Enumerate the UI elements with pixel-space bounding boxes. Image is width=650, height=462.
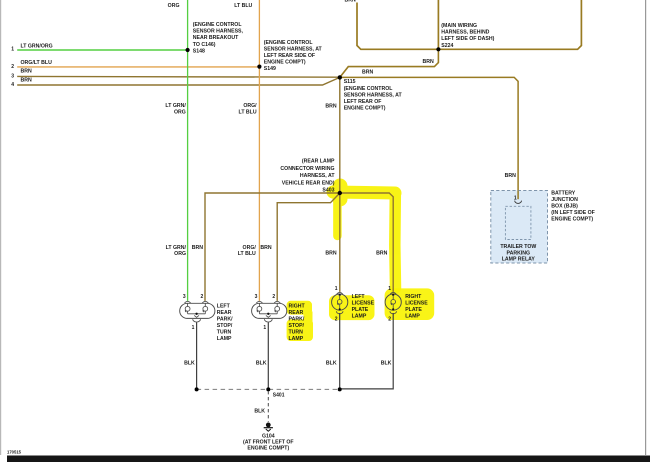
svg-text:VEHICLE REAR END): VEHICLE REAR END) bbox=[282, 180, 335, 186]
node S401 bbox=[266, 387, 270, 391]
svg-text:ORG/LT BLU: ORG/LT BLU bbox=[21, 60, 53, 66]
label LT GRN/ORG lower bbox=[166, 245, 187, 257]
left rear park stop turn lamp bulb element B bbox=[203, 306, 208, 313]
splice S115 node bbox=[338, 75, 342, 79]
svg-text:LAMP RELAY: LAMP RELAY bbox=[502, 257, 536, 263]
text trailer tow parking lamp relay bbox=[500, 244, 536, 262]
splice S148 node bbox=[186, 48, 190, 52]
left rear park stop turn lamp BLK ground wire bbox=[196, 322, 198, 389]
svg-text:2: 2 bbox=[11, 64, 14, 70]
highlighter blob over left license plate lamp bbox=[329, 295, 375, 320]
svg-text:LEFT REAR OF: LEFT REAR OF bbox=[344, 99, 382, 105]
splice S149 node bbox=[257, 65, 261, 69]
right rear park stop turn lamp BLK ground wire bbox=[267, 322, 269, 389]
left license plate lamp pin 2 connector arc bbox=[336, 311, 343, 314]
svg-text:(IN LEFT SIDE OF: (IN LEFT SIDE OF bbox=[551, 210, 595, 216]
svg-text:TURN: TURN bbox=[217, 329, 232, 335]
svg-text:ORG: ORG bbox=[168, 3, 180, 9]
left license plate lamp pin 1 connector bbox=[337, 292, 343, 294]
svg-text:LT BLU: LT BLU bbox=[239, 110, 257, 116]
svg-text:S148: S148 bbox=[193, 48, 205, 54]
svg-text:PARK/: PARK/ bbox=[289, 316, 305, 322]
svg-text:REAR: REAR bbox=[217, 310, 232, 316]
svg-text:LICENSE: LICENSE bbox=[352, 301, 375, 307]
svg-text:LEFT: LEFT bbox=[352, 294, 366, 300]
svg-text:LT GRN/: LT GRN/ bbox=[159, 0, 180, 1]
svg-text:BRN: BRN bbox=[192, 245, 203, 251]
svg-text:(ENGINE CONTROL: (ENGINE CONTROL bbox=[193, 22, 243, 28]
svg-text:170515: 170515 bbox=[7, 449, 22, 454]
svg-text:LAMP: LAMP bbox=[352, 314, 367, 320]
svg-text:(ENGINE CONTROL: (ENGINE CONTROL bbox=[264, 40, 314, 46]
right license plate lamp bulb element bbox=[391, 295, 396, 310]
svg-text:BRN: BRN bbox=[21, 78, 32, 84]
right license plate lamp bottom node bbox=[392, 308, 394, 310]
svg-text:BLK: BLK bbox=[326, 360, 337, 366]
svg-text:3: 3 bbox=[11, 74, 14, 80]
text battery junction box bbox=[551, 190, 595, 222]
text G104 bbox=[243, 434, 294, 452]
svg-text:2: 2 bbox=[201, 294, 204, 300]
left license plate lamp bulb element bbox=[337, 295, 342, 310]
svg-text:S115: S115 bbox=[344, 79, 356, 85]
svg-text:SENSOR HARNESS, AT: SENSOR HARNESS, AT bbox=[344, 92, 403, 98]
text left license plate lamp bbox=[352, 294, 375, 320]
left rear park stop turn lamp pin 2 connector bbox=[202, 301, 208, 306]
left rear park stop turn lamp body bbox=[180, 303, 215, 318]
right rear park stop turn lamp internal common wire bbox=[259, 313, 277, 315]
wire BRN from S224 down to S115 bbox=[340, 49, 439, 77]
svg-text:3: 3 bbox=[255, 294, 258, 300]
svg-text:HARNESS, AT: HARNESS, AT bbox=[300, 173, 335, 179]
svg-text:(REAR LAMP: (REAR LAMP bbox=[302, 159, 335, 165]
svg-text:1: 1 bbox=[388, 286, 391, 292]
svg-text:LT GRN/ORG: LT GRN/ORG bbox=[21, 44, 53, 50]
splice S403 node bbox=[338, 191, 342, 195]
wire 4 BRN horizontal with rise to S115 bbox=[17, 77, 340, 85]
wire BRN S403 down to left license lamp bbox=[339, 193, 341, 292]
svg-text:2: 2 bbox=[388, 316, 391, 322]
right rear park stop turn lamp pin 3 connector bbox=[256, 301, 262, 306]
svg-text:PLATE: PLATE bbox=[405, 307, 422, 313]
text right license plate lamp bbox=[405, 294, 428, 320]
svg-text:TO C146): TO C146) bbox=[193, 42, 216, 48]
wire 2 ORG/LT BLU horizontal bbox=[17, 66, 259, 68]
highlighter stroke over S403 output wires bbox=[333, 186, 396, 288]
svg-text:BRN: BRN bbox=[325, 104, 336, 110]
svg-text:ORG: ORG bbox=[174, 251, 186, 257]
left rear park stop turn lamp pin 1 chevron bbox=[194, 315, 199, 317]
text S149 callout bbox=[264, 40, 323, 72]
svg-text:SENSOR HARNESS, AT: SENSOR HARNESS, AT bbox=[264, 46, 323, 52]
text S403 callout bbox=[280, 159, 335, 194]
wire 1 LT GRN/ORG horizontal bbox=[17, 49, 187, 51]
svg-text:ORG/: ORG/ bbox=[243, 245, 257, 251]
right rear park stop turn lamp common node bbox=[267, 313, 269, 315]
node left rear lamp ground bbox=[195, 387, 199, 391]
svg-text:BRN: BRN bbox=[505, 173, 516, 179]
svg-text:LEFT REAR SIDE OF: LEFT REAR SIDE OF bbox=[264, 53, 315, 59]
svg-text:ENGINE COMPT): ENGINE COMPT) bbox=[551, 217, 593, 223]
svg-text:S224: S224 bbox=[441, 43, 453, 49]
svg-text:LAMP: LAMP bbox=[289, 336, 304, 342]
svg-text:STOP/: STOP/ bbox=[217, 323, 233, 329]
svg-text:BRN: BRN bbox=[21, 69, 32, 75]
svg-text:BRN: BRN bbox=[423, 59, 434, 65]
right license plate lamp BLK ground wire bbox=[340, 313, 393, 389]
svg-text:BRN: BRN bbox=[260, 245, 271, 251]
wire BRN S403 left branch to left rear lamp bbox=[205, 193, 340, 301]
ground G104 symbol bbox=[264, 423, 273, 432]
svg-text:ENGINE COMPT): ENGINE COMPT) bbox=[264, 60, 306, 66]
right license plate lamp body bbox=[385, 294, 401, 310]
left license plate lamp BLK ground wire bbox=[339, 313, 341, 389]
svg-text:RIGHT: RIGHT bbox=[405, 294, 422, 300]
svg-text:LT BLU: LT BLU bbox=[238, 251, 256, 257]
right rear park stop turn lamp pin 1 chevron bbox=[266, 315, 271, 317]
svg-text:S149: S149 bbox=[264, 66, 276, 72]
label ORG/LT BLU mid bbox=[239, 103, 258, 115]
connector arc BJB pin 1 bbox=[515, 201, 522, 204]
wire BRN from S115 to battery junction box bbox=[340, 77, 518, 199]
left rear park stop turn lamp bulb element A bbox=[185, 306, 190, 313]
trailer tow parking lamp relay box bbox=[505, 206, 531, 239]
svg-text:REAR: REAR bbox=[289, 310, 304, 316]
svg-text:TURN: TURN bbox=[289, 329, 304, 335]
text S224 callout bbox=[441, 23, 494, 49]
svg-text:STOP/: STOP/ bbox=[289, 323, 305, 329]
wire BLK dashed to ground bbox=[267, 391, 269, 422]
node left license ground bbox=[338, 387, 342, 391]
left rear park stop turn lamp common node bbox=[195, 313, 197, 315]
right rear park stop turn lamp pin 2 connector bbox=[274, 301, 280, 306]
wire BRN S403 right branch to right license lamp bbox=[340, 193, 393, 292]
svg-text:BRN: BRN bbox=[362, 69, 373, 75]
svg-text:LEFT: LEFT bbox=[217, 303, 231, 309]
right rear park stop turn lamp pin 1 connector arc bbox=[264, 319, 272, 322]
svg-text:PLATE: PLATE bbox=[352, 307, 369, 313]
wire LT GRN/ORG vertical from top bbox=[187, 0, 189, 301]
svg-text:ENGINE COMPT): ENGINE COMPT) bbox=[344, 106, 386, 112]
svg-text:LT GRN/: LT GRN/ bbox=[165, 103, 186, 109]
text left rear park stop turn lamp bbox=[217, 303, 233, 342]
wire end inside BJB bbox=[517, 191, 519, 200]
svg-text:1: 1 bbox=[11, 46, 14, 52]
wire BRN vertical into S224 bbox=[437, 0, 439, 49]
svg-text:BATTERY: BATTERY bbox=[551, 190, 575, 196]
battery junction box outline bbox=[491, 191, 548, 264]
svg-text:2: 2 bbox=[335, 316, 338, 322]
right page border bbox=[645, 0, 647, 455]
wire BRN S403 branch to right rear lamp bbox=[277, 194, 338, 301]
highlighter blob over right license plate lamp bbox=[385, 288, 435, 320]
svg-text:LAMP: LAMP bbox=[405, 314, 420, 320]
svg-text:PARK/: PARK/ bbox=[217, 316, 233, 322]
wire 3 BRN horizontal bbox=[17, 75, 340, 78]
splice S224 node bbox=[436, 47, 440, 51]
svg-text:ENGINE COMPT): ENGINE COMPT) bbox=[247, 446, 289, 452]
svg-text:CONNECTOR WIRING: CONNECTOR WIRING bbox=[280, 166, 334, 172]
svg-text:HARNESS, BEHIND: HARNESS, BEHIND bbox=[441, 30, 489, 36]
svg-text:TRAILER TOW: TRAILER TOW bbox=[500, 244, 536, 250]
bottom black bar bbox=[7, 456, 650, 462]
svg-text:LT BLU: LT BLU bbox=[234, 3, 252, 9]
svg-text:BLK: BLK bbox=[254, 409, 265, 415]
right license plate lamp pin 2 connector arc bbox=[390, 311, 397, 314]
svg-text:NEAR BREAKOUT: NEAR BREAKOUT bbox=[193, 35, 239, 41]
text S148 callout bbox=[193, 22, 244, 54]
svg-text:ORG: ORG bbox=[174, 110, 186, 116]
wire BRN S115 down to S403 bbox=[339, 77, 341, 193]
svg-text:LICENSE: LICENSE bbox=[405, 301, 428, 307]
label LT GRN/ORG mid bbox=[165, 103, 186, 115]
svg-text:BRN: BRN bbox=[325, 250, 336, 256]
right license plate lamp top node bbox=[392, 294, 394, 296]
left license plate lamp bottom node bbox=[339, 308, 341, 310]
text right rear park stop turn lamp bbox=[289, 303, 306, 342]
svg-text:1: 1 bbox=[335, 286, 338, 292]
right license plate lamp pin 1 connector bbox=[390, 292, 396, 294]
svg-text:BRN: BRN bbox=[376, 250, 387, 256]
svg-text:SENSOR HARNESS,: SENSOR HARNESS, bbox=[193, 29, 244, 35]
svg-text:BRN: BRN bbox=[345, 0, 356, 3]
svg-text:(MAIN WIRING: (MAIN WIRING bbox=[441, 23, 477, 29]
svg-text:BLK: BLK bbox=[381, 360, 392, 366]
left rear park stop turn lamp internal common wire bbox=[188, 313, 206, 315]
highlighter blob over RIGHT REAR text bbox=[287, 301, 313, 341]
left license plate lamp top node bbox=[339, 294, 341, 296]
svg-text:4: 4 bbox=[11, 82, 14, 88]
svg-text:2: 2 bbox=[272, 294, 275, 300]
left page border bbox=[0, 0, 2, 455]
left rear park stop turn lamp pin 3 connector bbox=[185, 301, 191, 306]
wire BRN S224 top bracket bbox=[357, 0, 581, 49]
svg-text:S401: S401 bbox=[273, 393, 285, 399]
svg-text:3: 3 bbox=[183, 294, 186, 300]
svg-text:ORG/: ORG/ bbox=[243, 103, 257, 109]
svg-text:1: 1 bbox=[192, 325, 195, 331]
svg-text:1: 1 bbox=[263, 325, 266, 331]
right rear park stop turn lamp body bbox=[252, 303, 287, 318]
svg-text:RIGHT: RIGHT bbox=[289, 303, 306, 309]
svg-text:BLK: BLK bbox=[256, 360, 267, 366]
svg-text:LEFT SIDE OF DASH): LEFT SIDE OF DASH) bbox=[441, 36, 494, 42]
svg-text:BLK: BLK bbox=[184, 360, 195, 366]
svg-text:ORG/: ORG/ bbox=[239, 0, 253, 1]
svg-text:G104: G104 bbox=[262, 434, 275, 440]
right rear park stop turn lamp bulb element A bbox=[257, 306, 262, 313]
svg-text:BOX (BJB): BOX (BJB) bbox=[551, 203, 578, 209]
ground bus dashed S401 bbox=[197, 388, 340, 390]
svg-text:JUNCTION: JUNCTION bbox=[551, 197, 578, 203]
text S115 callout bbox=[344, 79, 403, 111]
svg-text:LAMP: LAMP bbox=[217, 336, 232, 342]
right rear park stop turn lamp bulb element B bbox=[275, 306, 280, 313]
wire ORG/LT BLU vertical from top bbox=[258, 0, 260, 301]
left rear park stop turn lamp pin 1 connector arc bbox=[193, 319, 201, 322]
svg-text:LT GRN/: LT GRN/ bbox=[166, 245, 187, 251]
left license plate lamp body bbox=[332, 294, 348, 310]
label ORG/LT BLU lower bbox=[238, 245, 257, 257]
svg-text:(ENGINE CONTROL: (ENGINE CONTROL bbox=[344, 86, 394, 92]
